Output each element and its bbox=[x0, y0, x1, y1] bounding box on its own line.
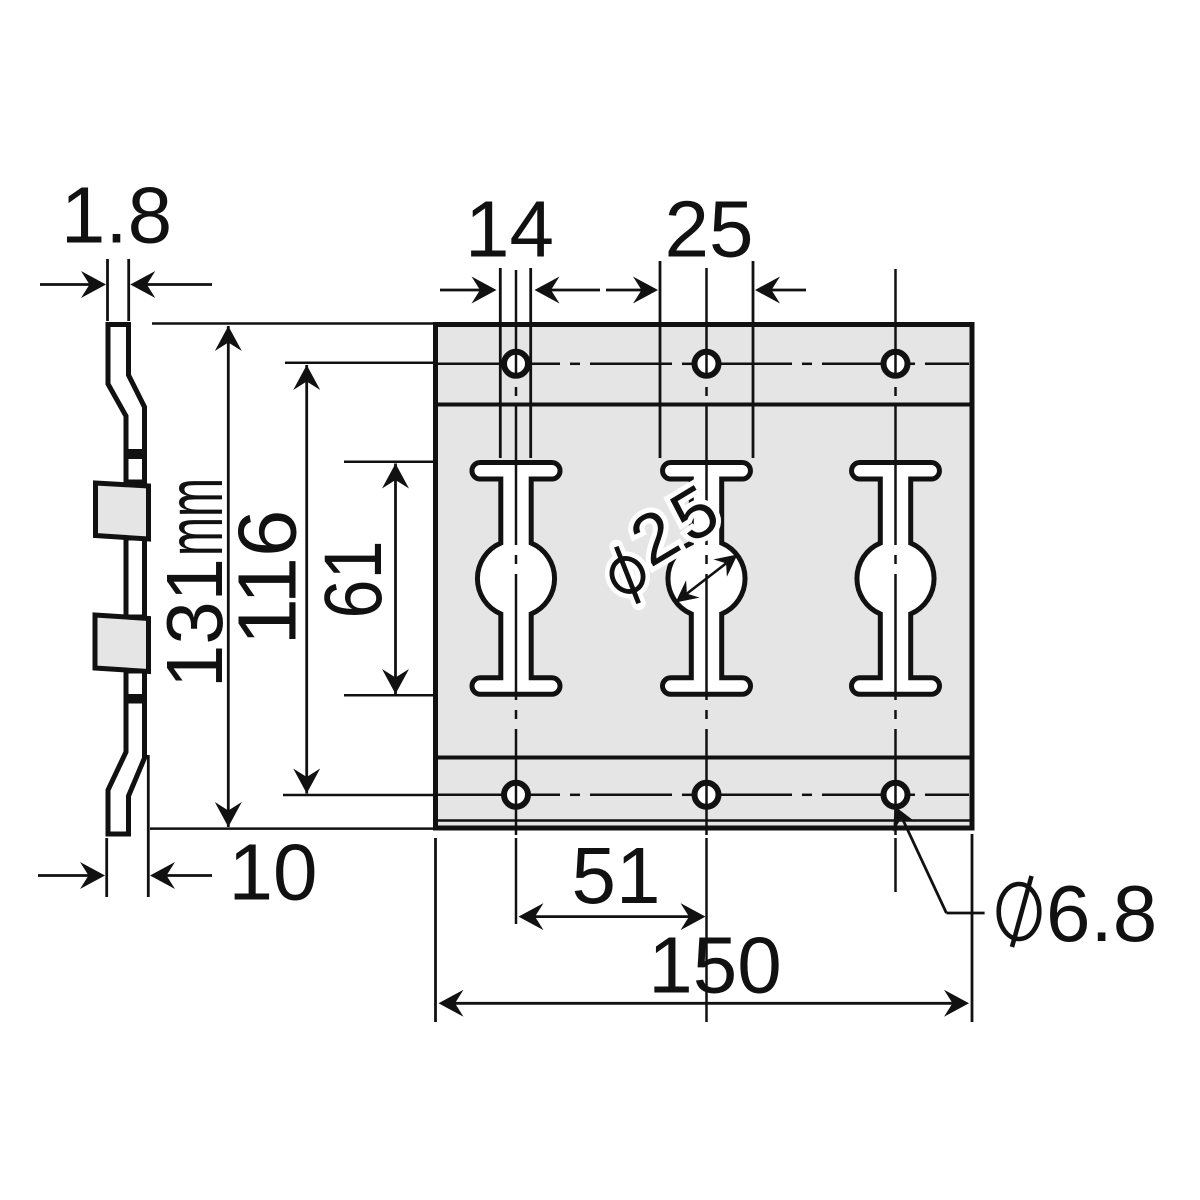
dim 1.8 arrow tails bbox=[40, 283, 90, 286]
vertical center line left keyhole bbox=[515, 270, 518, 377]
dim 14 arrow tails bbox=[440, 289, 480, 292]
side profile emboss bump 2 bbox=[95, 615, 149, 672]
phi6.8 leader arrowhead bbox=[893, 806, 915, 832]
dim 61 extension lines bbox=[344, 461, 434, 464]
dim 51 arrowheads bbox=[519, 903, 544, 930]
dim 61 line bbox=[394, 464, 397, 695]
side profile lower strip with jog bbox=[108, 701, 145, 834]
dim 61 arrowheads bbox=[382, 464, 409, 489]
side profile segment between bumps bbox=[126, 538, 145, 617]
dim 116 arrowheads bbox=[293, 365, 320, 390]
plate bottom band line bbox=[436, 756, 973, 760]
mounting holes phi6.8 bottom row bbox=[504, 783, 528, 807]
plate right edge extension bbox=[971, 834, 974, 1022]
dim 14 arrowheads bbox=[472, 277, 497, 304]
svg-text:1.8: 1.8 bbox=[61, 171, 172, 260]
dim 25 arrow tails bbox=[606, 289, 642, 292]
dim 10 extension lines bbox=[105, 838, 108, 897]
svg-text:51: 51 bbox=[572, 831, 661, 920]
dim 25 extension lines bbox=[659, 261, 662, 458]
plate left edge extension bbox=[434, 838, 437, 1022]
svg-text:14: 14 bbox=[465, 185, 554, 274]
phi25 diameter arrow bbox=[687, 563, 726, 593]
dim 131 arrowheads bbox=[215, 326, 242, 351]
side profile upper strip with jog bbox=[108, 325, 145, 452]
center line hole row bottom bbox=[437, 794, 560, 797]
side profile short segment B bbox=[126, 457, 145, 483]
plate front view body bbox=[436, 325, 973, 829]
vertical center line right keyhole bbox=[894, 269, 897, 377]
keyhole slot left bbox=[472, 463, 560, 695]
dim 116 line bbox=[305, 365, 308, 794]
dim 51 line bbox=[535, 915, 689, 918]
plate top band line bbox=[436, 403, 973, 407]
dim 10 arrow tails bbox=[38, 874, 89, 877]
dim 1.8 arrowheads bbox=[81, 271, 106, 298]
dim 116 extension lines bbox=[285, 362, 434, 365]
dim 14 extension lines bbox=[499, 268, 502, 458]
vertical center line middle keyhole bbox=[705, 268, 708, 377]
dim 131 bottom extension line bbox=[150, 827, 434, 830]
phi6.8 leader line bbox=[946, 912, 984, 915]
center line hole row top bbox=[437, 363, 560, 366]
svg-text:150: 150 bbox=[648, 921, 781, 1010]
keyhole slot middle bbox=[663, 463, 751, 695]
svg-text:10: 10 bbox=[229, 828, 318, 917]
dim 1.8 extension lines bbox=[106, 259, 109, 321]
mounting holes phi6.8 top row bbox=[504, 352, 528, 376]
dim 131 line bbox=[227, 326, 230, 827]
dim 150 line bbox=[455, 1002, 953, 1005]
plate bottom bend line bbox=[436, 819, 973, 821]
svg-text:116: 116 bbox=[221, 510, 314, 646]
svg-text:61: 61 bbox=[308, 541, 399, 619]
dim label phi25 (rotated with halo) bbox=[585, 470, 736, 608]
dim 25 arrowheads bbox=[633, 277, 658, 304]
dim 150 arrowheads bbox=[439, 990, 464, 1017]
dim text phi6.8 bbox=[999, 884, 1040, 939]
svg-text:25: 25 bbox=[665, 185, 754, 274]
side profile emboss bump 1 bbox=[96, 483, 149, 539]
keyhole slot right bbox=[852, 463, 940, 695]
dim 10 arrowheads bbox=[80, 862, 105, 889]
side profile short segment D bbox=[126, 671, 145, 697]
dim 131 top extension line bbox=[152, 322, 434, 325]
svg-text:6.8: 6.8 bbox=[1046, 869, 1157, 958]
